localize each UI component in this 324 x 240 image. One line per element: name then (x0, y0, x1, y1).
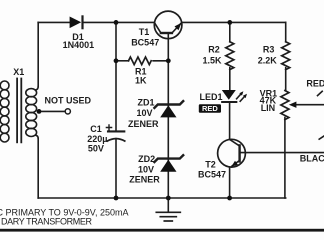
wire R2 top lead (229, 22, 231, 41)
svg-text:LED1: LED1 (200, 92, 223, 102)
transformer X1 secondary winding (26, 87, 38, 139)
svg-text:BC547: BC547 (198, 170, 226, 180)
resistor R2 (226, 42, 234, 90)
svg-text:220µ: 220µ (87, 134, 107, 144)
svg-text:ZENER: ZENER (128, 119, 159, 129)
node R1 left (114, 58, 119, 63)
wire plus column (C1 branch) (115, 22, 117, 131)
wire T1 emitter to right corner (182, 21, 286, 23)
svg-text:1.5K: 1.5K (202, 56, 222, 66)
svg-text:R3: R3 (263, 44, 275, 54)
zener ZD1 (154, 101, 183, 117)
ground (156, 198, 180, 221)
svg-text:RED: RED (202, 104, 218, 113)
RED lead arrow fragment (318, 91, 323, 95)
svg-text:10V: 10V (136, 108, 152, 118)
transformer X1 primary winding (0, 81, 9, 142)
zener ZD2 (154, 155, 183, 172)
LED LED1 (222, 90, 247, 102)
svg-text:C1: C1 (90, 124, 102, 134)
wire bottom rail (38, 197, 286, 199)
terminal NOT USED circle (65, 109, 70, 114)
svg-text:1K: 1K (135, 75, 147, 85)
wire right corner down to R3 (285, 22, 287, 41)
node top junction at C1 column (114, 20, 119, 25)
wire LED to T2 collector (229, 102, 231, 139)
node bottom C1 (114, 196, 119, 201)
node bottom ground (166, 196, 171, 201)
wire secondary top lead up to top rail (37, 22, 39, 86)
transistor T1 (154, 11, 182, 61)
svg-text:T2: T2 (205, 159, 216, 169)
wire D1 to junction (83, 21, 154, 23)
svg-text:ZD1: ZD1 (137, 98, 154, 108)
node bottom T2 emitter (227, 196, 232, 201)
badge RED (199, 104, 221, 113)
svg-text:ZENER: ZENER (129, 175, 160, 185)
wire VR1 bottom to ground rail (284, 118, 286, 199)
svg-text:BLACK: BLACK (300, 153, 324, 163)
svg-text:RED: RED (306, 78, 324, 88)
svg-text:ZD2: ZD2 (138, 154, 155, 164)
wire top rail left (to D1) (38, 21, 70, 23)
svg-text:DARY TRANSFORMER: DARY TRANSFORMER (1, 217, 93, 227)
potentiometer VR1 (281, 91, 324, 120)
BLACK lead arrow fragment (319, 136, 324, 139)
svg-text:T1: T1 (139, 27, 150, 37)
node secondary centre tap (37, 109, 42, 114)
transformer X1 core (17, 79, 21, 143)
diode D1 (70, 16, 83, 28)
svg-text:X1: X1 (13, 67, 24, 77)
transistor T2 (218, 139, 246, 198)
resistor R3 (282, 42, 290, 91)
wire ZD column (167, 61, 169, 198)
svg-text:50V: 50V (88, 144, 104, 154)
svg-text:LIN: LIN (261, 103, 276, 113)
svg-text:NOT USED: NOT USED (45, 95, 92, 105)
node top junction at R2 (227, 20, 232, 25)
svg-text:R2: R2 (208, 44, 220, 54)
resistor R1 (116, 57, 168, 65)
wire T2 base to BLACK terminal (240, 152, 324, 154)
svg-text:10V: 10V (138, 164, 154, 174)
capacitor C1 (106, 125, 124, 141)
wire tap to terminal (40, 110, 65, 112)
bottom border (0, 229, 324, 232)
wire secondary bottom lead down (37, 139, 39, 199)
svg-text:BC547: BC547 (131, 37, 159, 47)
node R1 right / T1 base (166, 58, 171, 63)
svg-text:1N4001: 1N4001 (63, 40, 95, 50)
svg-text:2.2K: 2.2K (258, 56, 278, 66)
